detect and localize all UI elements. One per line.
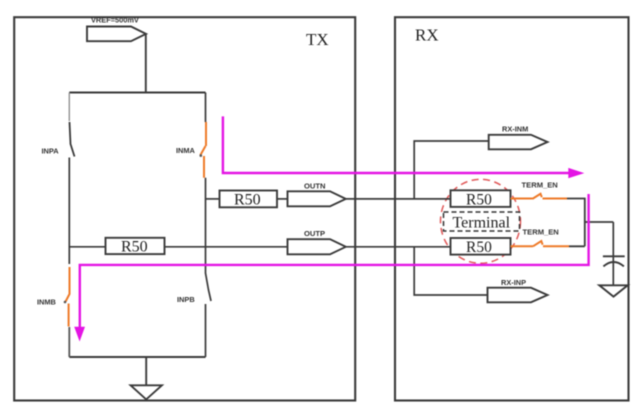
- svg-text:R50: R50: [121, 239, 148, 256]
- svg-text:RX: RX: [415, 26, 439, 45]
- svg-text:RX-INM: RX-INM: [502, 125, 528, 134]
- svg-text:R50: R50: [234, 192, 261, 209]
- svg-text:INPB: INPB: [177, 295, 195, 304]
- svg-text:VREF=500mV: VREF=500mV: [91, 16, 139, 25]
- svg-text:TERM_EN: TERM_EN: [523, 228, 559, 237]
- svg-text:TX: TX: [306, 30, 329, 49]
- svg-text:R50: R50: [466, 239, 492, 256]
- svg-text:Terminal: Terminal: [453, 215, 511, 232]
- svg-text:INMA: INMA: [176, 146, 196, 155]
- svg-text:TERM_EN: TERM_EN: [522, 181, 558, 190]
- svg-text:R50: R50: [466, 191, 492, 208]
- svg-text:OUTN: OUTN: [304, 182, 326, 191]
- svg-text:OUTP: OUTP: [304, 229, 325, 238]
- svg-text:INMB: INMB: [37, 298, 56, 307]
- svg-text:RX-INP: RX-INP: [501, 278, 526, 287]
- svg-text:INPA: INPA: [42, 147, 60, 156]
